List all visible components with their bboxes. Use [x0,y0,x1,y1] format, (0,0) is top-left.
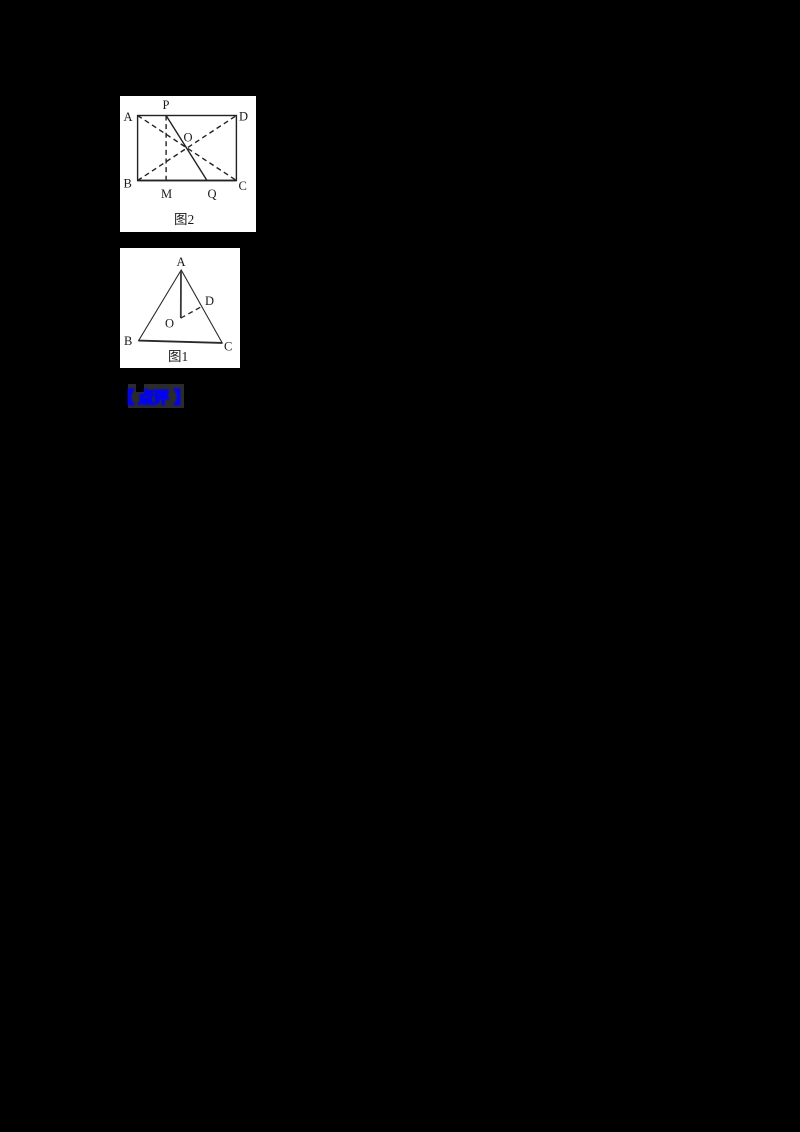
svg-text:A: A [124,110,133,124]
black notch artifact [136,381,144,392]
triangle ABC [139,270,223,343]
svg-text:A: A [177,255,186,269]
figure 1 white panel [120,248,240,368]
diagonal AC dashed [138,116,237,181]
blue text 【点评】 [0,388,1,390]
svg-text:图2: 图2 [174,212,194,227]
svg-text:B: B [124,177,132,191]
svg-text:图1: 图1 [168,349,188,364]
svg-text:O: O [165,317,174,331]
svg-text:D: D [239,110,248,124]
svg-text:C: C [224,340,232,354]
svg-text:B: B [124,334,132,348]
diagonal BD dashed [138,116,237,181]
figure 2 white panel [120,96,256,232]
svg-text:C: C [239,179,247,193]
highlighted blue text block [128,384,184,408]
svg-text:M: M [161,187,172,201]
svg-text:D: D [205,294,214,308]
rectangle ABCD [138,116,237,181]
svg-text:O: O [184,131,193,145]
svg-text:P: P [163,98,170,112]
segment OD dashed [181,307,202,319]
segment PQ solid [166,116,207,181]
edge BC heavier [138,180,237,182]
segment AO solid [180,271,182,319]
segment PM dashed [165,116,167,181]
edge BC heavier [139,341,223,343]
svg-text:Q: Q [208,187,217,201]
